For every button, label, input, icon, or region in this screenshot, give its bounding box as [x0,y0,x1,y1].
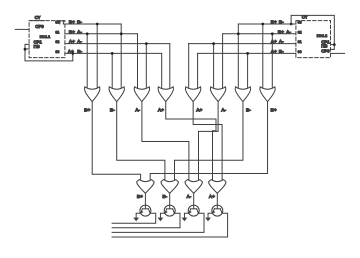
wire emitter VT1 to output arrow [136,213,141,217]
label PV (DD1.2) [321,44,328,49]
junction (72.8,53.4) [71,52,74,55]
label B- (gate D7 output) [246,107,251,113]
svg-text:A+: A+ [196,107,202,113]
label DD1.1 [40,34,51,39]
arrow output phase B+ (emitter VT1) [133,218,139,222]
wire gate D1 out (B+) to gate D9 in A [92,102,140,180]
label A+ (gate D4 output) [158,107,164,113]
label CY (DD1.2) [302,15,308,20]
label A- (gate D3 output) [135,107,140,113]
arrow output phase B- (emitter VT2) [158,218,164,222]
svg-text:03: 03 [298,21,302,25]
wire CP0 input (right) [331,52,345,54]
pin 00 (DD1.1) [55,21,59,25]
wire right row Q3 to gate D7 in B [247,53,249,87]
label B+ (gate D8 output) [271,107,277,113]
junction (213.6,43.6) [212,42,215,45]
xor gate D12 [209,180,226,194]
wire row Q1 to gate D1 in A [86,34,88,88]
wire collector VT3 to bus [112,213,204,232]
xor gate D3 [134,87,149,102]
arrow output phase A- (emitter VT3) [182,218,188,222]
svg-text:B+: B+ [278,29,284,35]
label A+ B- (left row Q3) [68,49,83,55]
wire CP1 stub [25,43,29,45]
label B+ B- (left row Q0) [69,19,83,25]
wire collector VT2 to bus [112,213,180,228]
junction (87.2,33.8) [86,32,89,35]
label B+ A- (left row Q1) [69,29,83,35]
wire gate D9 output to transistor VT1 base [144,193,146,209]
label B+ (gate D9 output) [137,194,143,200]
pin 01 (DD1.1) [55,30,59,34]
wire collector VT4 to bus [112,213,228,237]
xor gate D6 [210,87,225,102]
transistor VT1 [140,205,151,216]
wire row Q3 left (A+ B-) [65,52,162,54]
wire row Q2 left (A+ A-) [65,43,170,45]
svg-text:CY: CY [35,15,41,20]
svg-text:00: 00 [55,21,59,25]
label B- (gate D2 output) [110,107,115,113]
svg-text:B-: B- [110,107,115,113]
wire gate D11 output to transistor VT3 base [193,193,195,209]
pin 02 (DD1.2) [298,30,302,34]
junction PV/CP1 (left) [24,48,27,51]
wire right row Q0 to gate D8 in A [262,24,264,88]
wire row Q2 to gate D3 in B [145,44,147,88]
svg-text:02: 02 [298,30,302,34]
wire gate D2 out (B-) to gate D10 in A [117,102,165,180]
xor gate D10 [161,180,178,194]
wire right row Q3 to gate D5 in B [197,53,199,87]
label DD1.2 [317,33,328,38]
wire CY bump to Q0 row [60,21,64,24]
counter DD1.1 (left dashed block) [29,21,65,58]
label A+ A- (right row) [271,39,285,45]
svg-text:A-: A- [221,107,226,113]
svg-text:DD1.2: DD1.2 [317,33,328,38]
svg-text:B-: B- [77,19,82,25]
wire right row Q0 to gate D7 in A [237,24,239,88]
wire row Q0 to gate D2 in B [120,24,122,88]
svg-text:01: 01 [298,40,302,44]
pin 03 (DD1.1) [55,50,59,54]
xor gate D2 [109,87,124,102]
label A- (gate D11 output) [186,194,191,200]
wire gate D8 out (B+) to gate D9 in B [150,102,267,180]
wire row Q0 right (B+ B-) [238,23,296,25]
wire row Q0 to gate D1 in B [96,24,98,88]
wire right row Q2 to gate D6 in A [213,44,215,88]
xor gate D7 [235,87,250,102]
label PV (DD1.1 enable) [34,44,41,49]
arrow output phase A+ (emitter VT4) [205,218,211,222]
junction (112.2,53.4) [111,52,114,55]
wire CP1 stub (right) [331,44,335,46]
xor gate D5 [186,87,201,102]
svg-text:B-: B- [279,19,284,25]
xor gate D1 [85,87,100,102]
svg-text:00: 00 [298,50,302,54]
svg-text:A+: A+ [69,39,75,45]
wire row Q3 to gate D4 in A [161,53,163,87]
junction (121.2,33.8) [120,32,123,35]
wire row Q0 left (B+ B-) [63,23,121,25]
junction Q3 row feedback (right) [290,23,293,26]
svg-text:A+: A+ [271,39,277,45]
svg-text:A+: A+ [271,49,277,55]
svg-text:ПВ: ПВ [34,44,41,49]
wire gate D5 out (A+) to gate D12 in B [193,102,222,180]
junction (262.8,24) [261,23,264,26]
wire PV stub [25,48,29,50]
pin 00 (DD1.2) [298,50,302,54]
svg-text:03: 03 [55,50,59,54]
xor gate D4 [158,87,173,102]
svg-text:DD1.1: DD1.1 [40,34,51,39]
svg-text:B+: B+ [271,19,277,25]
label CP1 (DD1.1) [34,40,43,45]
wire gate D6 out (A-) to gate D11 in B [199,102,219,180]
pin 02 (DD1.1) [55,40,59,44]
svg-text:B-: B- [279,49,284,55]
wire gate D10 output to transistor VT2 base [169,193,171,209]
wire gate D12 output to transistor VT4 base [216,193,218,209]
wire collector VT1 to bus [112,213,156,223]
svg-text:B+: B+ [69,29,75,35]
wire feedback Q3 to CP1/PV (left) [25,44,73,61]
svg-text:CP0: CP0 [321,49,330,54]
pin 03 (DD1.2) [298,21,302,25]
svg-text:CP0: CP0 [35,24,44,29]
svg-text:B-: B- [77,49,82,55]
wire row Q1 left (B+ A-) [65,33,138,35]
transistor VT2 [164,205,175,216]
svg-text:B+: B+ [137,194,143,200]
svg-text:B+: B+ [84,107,90,113]
wire row Q1 right (B+ A-) [223,33,296,35]
svg-text:A-: A- [286,29,291,35]
junction (146.3,43.6) [145,42,148,45]
label CP1 (DD1.2) [321,39,330,44]
wire right row Q1 to gate D8 in B [271,34,273,88]
wire emitter VT4 to output arrow [208,213,213,217]
junction (97.2,24) [96,23,99,26]
svg-text:02: 02 [55,40,59,44]
xor gate D8 [260,87,275,102]
svg-text:B+: B+ [271,107,277,113]
wire emitter VT2 to output arrow [160,213,165,217]
svg-text:01: 01 [55,30,59,34]
label A+ (gate D12 output) [209,194,215,200]
transistor VT4 [212,205,223,216]
label A- (gate D6 output) [221,107,226,113]
wire row Q1 to gate D3 in A [137,34,139,88]
label A+ (gate D5 output) [196,107,202,113]
xor gate D11 [185,180,202,194]
counter DD1.2 (right dashed block) [296,21,331,58]
svg-text:A-: A- [186,194,191,200]
wire row Q2 right (A+ A-) [189,43,296,45]
wire row Q3 right (A+ B-) [198,52,296,54]
svg-text:B-: B- [246,107,251,113]
svg-text:A-: A- [77,39,82,45]
wire emitter VT3 to output arrow [184,213,189,217]
label A+ A- (left row Q2) [69,39,83,45]
label CP0 (DD1.2) [321,49,330,54]
svg-text:A+: A+ [158,107,164,113]
wire row Q3 to gate D2 in A [111,53,113,87]
wire gate D3 out (A-) to gate D11 in A [142,102,189,180]
label B+ (gate D1 output) [84,107,90,113]
svg-text:B-: B- [162,194,167,200]
label CP0 (DD1.1) [35,24,44,29]
label B+ B- (right row) [271,19,285,25]
wire right row Q1 to gate D6 in B [222,34,224,88]
junction (272.3,33.8) [271,32,274,35]
svg-text:B+: B+ [69,19,75,25]
wire right row Q2 to gate D5 in A [188,44,190,88]
svg-text:A-: A- [279,39,284,45]
svg-text:A-: A- [135,107,140,113]
junction CP1 (right) [333,43,336,46]
junction (247.6,53.4) [246,52,249,55]
label CY (DD1.1 carry) [35,15,41,20]
wire gate D4 out (A+) to gate D12 in A (dogleg) [166,102,216,180]
label B- (gate D10 output) [162,194,167,200]
svg-text:A-: A- [77,29,82,35]
label A+ B- (right row) [271,49,285,55]
junction (238.3,33.8) [237,32,240,35]
label B+ A- (right row) [278,29,292,35]
wire CP0 input (left) [15,28,29,30]
pin 01 (DD1.2) [298,40,302,44]
transistor VT3 [188,205,199,216]
svg-text:A+: A+ [209,194,215,200]
wire feedback Q3 to CP1/PV (right) [291,15,334,49]
xor gate D9 [137,180,154,194]
wire gate D7 out (B-) to gate D10 in B [175,102,243,180]
wire row Q2 to gate D4 in B [169,44,171,88]
